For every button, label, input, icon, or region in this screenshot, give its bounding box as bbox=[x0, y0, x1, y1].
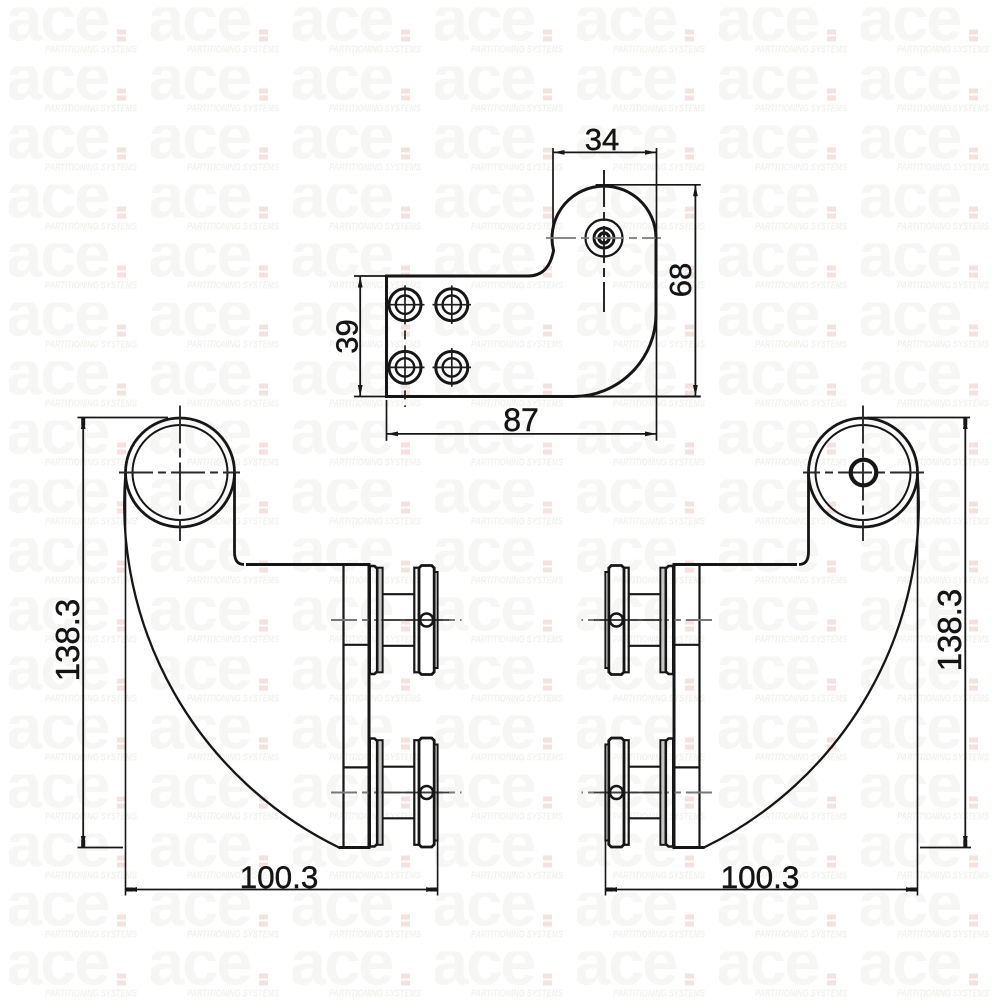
svg-text:34: 34 bbox=[585, 122, 619, 157]
hole A top-left bbox=[389, 289, 421, 321]
hole crosshair ticks bbox=[387, 304, 425, 306]
hub circle right view bbox=[851, 460, 877, 486]
pivot hole outer circle bbox=[586, 220, 623, 257]
svg-text:68: 68 bbox=[663, 263, 698, 297]
dimension 100.3 right bbox=[606, 478, 918, 896]
dimension 100.3 left bbox=[126, 478, 438, 896]
svg-text:87: 87 bbox=[503, 402, 539, 438]
svg-text:39: 39 bbox=[330, 319, 365, 353]
hole D bottom-right bbox=[436, 351, 468, 383]
dimension 87 bbox=[387, 400, 657, 441]
pivot hole center screw bbox=[599, 233, 609, 243]
dimension 39 bbox=[330, 276, 388, 397]
dimension 68 bbox=[557, 185, 701, 397]
pivot hole middle circle bbox=[594, 228, 614, 248]
svg-text:138.3: 138.3 bbox=[931, 589, 968, 672]
svg-text:100.3: 100.3 bbox=[721, 859, 800, 895]
bracket body right mirrored bbox=[582, 406, 925, 848]
dimension 138.3 left bbox=[49, 418, 168, 848]
pivot vertical centerline bbox=[603, 170, 605, 312]
svg-text:138.3: 138.3 bbox=[49, 599, 86, 682]
svg-text:100.3: 100.3 bbox=[240, 859, 319, 895]
dimension 34 bbox=[553, 122, 657, 441]
dimension 138.3 right bbox=[867, 418, 971, 848]
plate outline top view bbox=[387, 186, 657, 396]
bracket body left bbox=[119, 406, 371, 848]
left holes vertical centerline dashed bbox=[404, 285, 406, 407]
hole C bottom-left bbox=[389, 351, 421, 383]
pivot horizontal centerline bbox=[546, 237, 661, 239]
clamp assembly upper bbox=[331, 566, 462, 675]
clamp assembly lower bbox=[331, 738, 462, 847]
hole B top-right bbox=[436, 289, 468, 321]
